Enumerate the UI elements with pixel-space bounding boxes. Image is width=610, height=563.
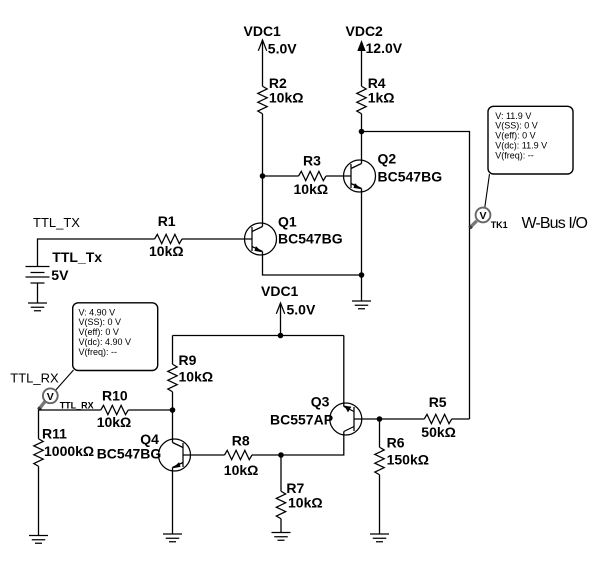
ground (R11) [29, 536, 48, 544]
resistor R9 [168, 336, 213, 411]
resistor R2 [258, 75, 304, 114]
svg-text:12.0V: 12.0V [366, 40, 403, 56]
svg-text:Q2: Q2 [378, 150, 397, 166]
node D junction [278, 333, 284, 339]
svg-text:1000kΩ: 1000kΩ [44, 443, 94, 459]
svg-text:Q1: Q1 [278, 213, 297, 229]
svg-text:10kΩ: 10kΩ [288, 495, 323, 511]
wire Q1 emitter [263, 252, 362, 276]
ground (R6) [370, 534, 389, 542]
svg-text:R6: R6 [387, 435, 405, 451]
svg-text:10kΩ: 10kΩ [97, 414, 132, 430]
svg-text:VDC1: VDC1 [261, 283, 299, 299]
wire VDC1 rail (lower) [173, 335, 344, 337]
svg-text:TTL_RX: TTL_RX [60, 401, 94, 411]
wire node C to ground [361, 275, 363, 301]
source TTL_Tx 5V battery [26, 249, 103, 303]
svg-text:R5: R5 [429, 394, 447, 410]
wire Q1 collector to node A [262, 176, 264, 227]
wire R4 to node B [361, 114, 363, 132]
resistor R5 [421, 394, 469, 440]
svg-text:TTL_TX: TTL_TX [33, 215, 80, 230]
svg-text:TTL_RX: TTL_RX [10, 371, 59, 386]
svg-text:50kΩ: 50kΩ [421, 424, 456, 440]
resistor R6 [375, 419, 429, 534]
power VDC1 (top) [244, 23, 298, 86]
probe TK1 [470, 208, 508, 230]
transistor Q4 BC547BG [97, 431, 191, 471]
svg-text:5V: 5V [51, 267, 69, 283]
wire TTL_Tx source to R1 [38, 239, 155, 267]
node B junction [359, 129, 365, 135]
svg-text:V(eff): 0 V: V(eff): 0 V [79, 327, 119, 337]
svg-text:10kΩ: 10kΩ [179, 369, 214, 385]
svg-text:W-Bus I/O: W-Bus I/O [522, 215, 589, 232]
callout line to probe TK1 [485, 174, 490, 208]
svg-text:V(dc): 4.90 V: V(dc): 4.90 V [79, 337, 132, 347]
svg-text:V(freq): --: V(freq): -- [79, 347, 118, 357]
wire Q3 base to node G [354, 418, 424, 420]
svg-text:1kΩ: 1kΩ [368, 90, 395, 106]
svg-text:Q4: Q4 [140, 431, 159, 447]
svg-text:10kΩ: 10kΩ [224, 462, 259, 478]
svg-text:VDC2: VDC2 [346, 23, 384, 39]
transistor Q3 BC557AP [270, 394, 362, 436]
svg-text:TK1: TK1 [491, 220, 508, 230]
svg-text:V: 4.90 V: V: 4.90 V [79, 307, 116, 317]
callout line to probe TTL_RX [56, 370, 74, 390]
svg-text:VDC1: VDC1 [244, 23, 282, 39]
ground (Q4) [163, 534, 182, 542]
power VDC1 (lower) [261, 283, 316, 336]
resistor R8 [224, 433, 281, 478]
node G junction [377, 416, 383, 422]
ground (battery) [28, 303, 47, 311]
svg-text:R8: R8 [232, 433, 250, 449]
svg-text:BC557AP: BC557AP [270, 411, 333, 427]
wire Q4 emitter to ground [172, 468, 174, 535]
transistor Q1 BC547BG [245, 213, 343, 255]
wire node F to Q3 collector [281, 432, 344, 456]
svg-text:5.0V: 5.0V [268, 41, 297, 57]
svg-text:BC547BG: BC547BG [278, 230, 343, 246]
transistor Q2 BC547BG [344, 150, 443, 192]
svg-text:R11: R11 [42, 426, 67, 442]
node E junction [170, 407, 176, 413]
wire R2 to node A [262, 114, 264, 176]
ground (Q1/Q2 emitters) [352, 301, 371, 309]
resistor R11 [34, 426, 94, 536]
wire node E to Q4 collector [172, 410, 174, 443]
svg-text:V(SS): 0 V: V(SS): 0 V [79, 317, 122, 327]
wire Q2 emitter [361, 189, 363, 276]
resistor R1 [149, 213, 252, 259]
node C junction [359, 272, 365, 278]
node F junction [278, 452, 284, 458]
svg-text:R10: R10 [102, 388, 128, 404]
svg-text:R1: R1 [158, 213, 176, 229]
svg-text:V(eff): 0 V: V(eff): 0 V [495, 131, 535, 141]
wire Q3 emitter to VDC1 rail [343, 336, 345, 407]
annotation box probe TTL_RX values [73, 303, 158, 371]
resistor R4 [357, 75, 395, 114]
svg-text:BC547BG: BC547BG [97, 446, 162, 462]
wire Q4 base to R8 [183, 454, 225, 456]
wire probe corner to R10 [39, 410, 101, 439]
svg-text:V(dc): 11.9 V: V(dc): 11.9 V [495, 141, 547, 151]
svg-text:BC547BG: BC547BG [378, 169, 443, 185]
svg-text:R9: R9 [179, 352, 197, 368]
svg-text:10kΩ: 10kΩ [269, 90, 304, 106]
resistor R10 [97, 388, 173, 431]
svg-text:V(SS): 0 V: V(SS): 0 V [495, 121, 538, 131]
probe TTL_RX [39, 388, 94, 410]
svg-text:V: V [47, 391, 54, 403]
svg-text:V: V [479, 210, 486, 222]
svg-text:TTL_Tx: TTL_Tx [52, 249, 102, 265]
svg-text:R3: R3 [303, 153, 321, 169]
power VDC2 (top) [346, 23, 403, 86]
svg-text:10kΩ: 10kΩ [294, 181, 329, 197]
svg-text:10kΩ: 10kΩ [149, 243, 184, 259]
ground (R7) [272, 533, 291, 541]
svg-text:Q3: Q3 [311, 394, 330, 410]
svg-text:150kΩ: 150kΩ [387, 452, 429, 468]
wire node B to right rail [362, 132, 470, 420]
resistor R3 [263, 153, 352, 198]
annotation box probe TK1 values [488, 106, 573, 174]
node A junction [260, 173, 266, 179]
svg-text:V: 11.9 V: V: 11.9 V [495, 111, 531, 121]
svg-text:5.0V: 5.0V [287, 301, 316, 317]
wire Q2 collector [361, 132, 363, 164]
resistor R7 [276, 455, 322, 533]
svg-text:V(freq): --: V(freq): -- [495, 151, 534, 161]
